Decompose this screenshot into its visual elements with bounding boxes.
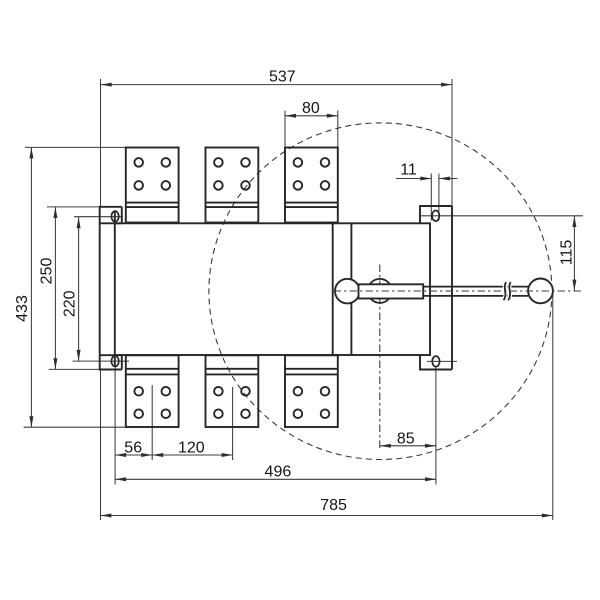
extension line 11 left	[430, 174, 432, 221]
mounting slot top-left	[111, 211, 118, 222]
left bracket plate outline	[100, 207, 122, 370]
mechanism partition wall 2	[350, 223, 352, 355]
extension line 433 bottom	[24, 426, 153, 428]
dim line 56	[115, 454, 152, 456]
arrows 80	[285, 114, 296, 118]
handle swing envelope dashed circle	[209, 123, 552, 460]
extension line 250 bottom	[49, 368, 99, 370]
extension line 785 right	[552, 294, 554, 520]
extension line 433 top	[25, 146, 126, 148]
dim line 433	[30, 147, 32, 427]
slot centerline top-left horizontal (220 ext)	[74, 216, 123, 218]
dim line 537	[101, 84, 452, 86]
pad2 bottom centerline (120 ext)	[232, 387, 234, 460]
arrows 785	[100, 514, 111, 518]
bottom terminal pad 1	[126, 355, 179, 427]
bottom terminal pad 3	[285, 355, 338, 427]
left bracket bottom tab right edge	[121, 355, 123, 369]
arrows 496	[115, 477, 126, 481]
dim line 496	[115, 478, 436, 480]
bottom terminal pad 2	[206, 355, 259, 427]
svg-text:80: 80	[302, 100, 320, 117]
dim line 11 (outside segments)	[396, 178, 431, 180]
svg-text:537: 537	[269, 68, 296, 85]
handle ball outer	[528, 279, 553, 304]
left bracket top tab bottom edge	[100, 222, 122, 224]
slot centerline top-right horizontal (115 ext)	[421, 215, 583, 217]
arrows 433	[29, 147, 33, 158]
top terminal pad 2	[206, 148, 259, 223]
svg-text:115: 115	[558, 240, 575, 266]
svg-text:433: 433	[14, 295, 31, 322]
svg-text:220: 220	[62, 290, 79, 317]
arrows 250	[53, 207, 57, 218]
dim line 80	[285, 115, 338, 117]
svg-text:120: 120	[178, 439, 205, 456]
handle rod top line	[423, 286, 528, 288]
extension line left (537/785) x=100.5 upper	[100, 79, 102, 207]
arrows 115	[572, 216, 576, 227]
mounting slot bottom-left	[111, 356, 118, 367]
slot centerline bottom-left horizontal (220 ext)	[73, 360, 130, 362]
extension line left (785) x=100.5 lower	[100, 370, 102, 521]
svg-text:56: 56	[124, 439, 142, 456]
pad1 bottom centerline (56/120 ext)	[151, 385, 153, 460]
shaft hub circle (under lever)	[368, 279, 392, 303]
handle ball inner	[335, 279, 360, 304]
dim line 220	[78, 217, 80, 361]
top terminal pad 3	[285, 148, 338, 223]
arrows 56	[115, 453, 126, 457]
handle rod bottom line	[423, 295, 528, 297]
dim line 120	[152, 454, 232, 456]
right bracket bottom tab	[420, 355, 452, 370]
main body rectangle	[115, 223, 430, 355]
dim line 85	[380, 445, 436, 447]
handle shaft rectangle	[359, 284, 424, 298]
dim line 115	[573, 216, 575, 291]
right bracket plate right edge	[451, 206, 453, 370]
mechanism partition wall 1	[332, 223, 334, 355]
arrows 11 (pointing inward from outside)	[420, 177, 431, 181]
svg-text:785: 785	[320, 497, 347, 514]
svg-text:250: 250	[39, 258, 56, 285]
svg-text:85: 85	[397, 431, 415, 448]
svg-text:11: 11	[400, 162, 417, 179]
left bracket top tab right edge	[121, 207, 123, 224]
arrows 220	[77, 217, 81, 228]
extension line 80 left	[284, 111, 286, 147]
slot centerline bottom-right vertical (85/496 ext)	[435, 367, 437, 485]
slot centerline bottom-left vertical (56/496 ext)	[114, 367, 116, 485]
right bracket top tab	[420, 206, 452, 223]
handle horizontal dash-dot centerline	[334, 290, 584, 292]
extension line 250 top	[47, 206, 100, 208]
arrows 537	[101, 83, 112, 87]
rod break symbol	[504, 282, 511, 300]
dim line 250	[54, 207, 56, 369]
body left edge through bottom slot	[114, 355, 116, 367]
extension line 11 right	[438, 174, 440, 221]
mounting slot bottom-right	[432, 356, 439, 367]
svg-text:496: 496	[265, 464, 292, 481]
mounting slot top-right	[432, 211, 439, 222]
arrows 85	[380, 444, 391, 448]
extension line right (537) x=452 upper	[451, 79, 453, 206]
body left edge through top slot	[114, 211, 116, 223]
extension line 80 right	[337, 111, 339, 147]
left bracket bottom tab top edge	[100, 354, 122, 356]
pivot vertical dash-dot centerline	[379, 265, 381, 451]
top terminal pad 1	[126, 148, 179, 223]
arrows 120	[152, 453, 163, 457]
slot centerline bottom-right horizontal	[427, 360, 457, 362]
dim line 785	[100, 515, 552, 517]
